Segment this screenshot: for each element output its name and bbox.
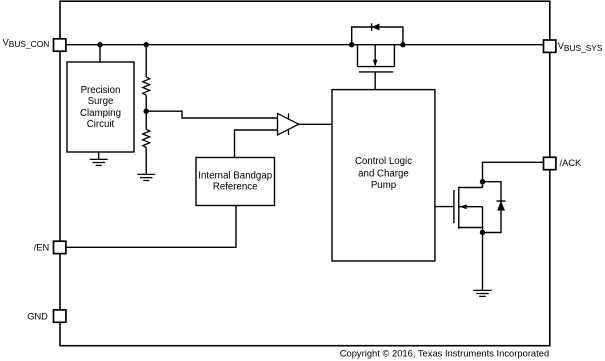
diode D2 xyxy=(497,201,506,211)
svg-text:Control Logic: Control Logic xyxy=(355,156,412,167)
ground below Q2 xyxy=(473,290,492,296)
svg-text:Clamping: Clamping xyxy=(80,108,121,119)
svg-text:GND: GND xyxy=(27,311,48,321)
diode D1 xyxy=(372,23,380,31)
transistor Q2 xyxy=(454,187,483,233)
wire: bus down to resistor R1 xyxy=(145,45,147,77)
svg-text:VBUS_SYS: VBUS_SYS xyxy=(558,41,603,53)
svg-text:Circuit: Circuit xyxy=(87,119,115,130)
junction node at FET source xyxy=(349,42,354,47)
svg-text:Copyright © 2016, Texas Instru: Copyright © 2016, Texas Instruments Inco… xyxy=(340,347,549,358)
pin /EN xyxy=(54,241,66,253)
svg-text:/ACK: /ACK xyxy=(560,158,582,168)
wire: /ACK pin to Q2 drain xyxy=(483,162,544,187)
svg-text:Surge: Surge xyxy=(88,96,114,107)
junction node at Q2 source xyxy=(480,230,485,235)
wire: bandgap reference to comparator input xyxy=(235,130,278,158)
wire: control logic to Q2 gate xyxy=(435,206,454,208)
svg-text:VBUS_CON: VBUS_CON xyxy=(3,37,50,49)
svg-text:Pump: Pump xyxy=(371,180,396,191)
svg-text:and Charge: and Charge xyxy=(358,168,409,179)
svg-text:Reference: Reference xyxy=(213,182,258,193)
pin VBUS_CON xyxy=(54,39,66,51)
wire: VBUS_CON to VBUS_SYS main bus xyxy=(66,44,544,46)
comparator U1 xyxy=(278,113,299,135)
wire: comparator output to control logic xyxy=(299,123,332,125)
ground below resistor divider xyxy=(137,174,155,180)
svg-text:Precision: Precision xyxy=(81,85,121,96)
ground below precision surge clamping circuit xyxy=(90,152,108,165)
wire: Q2 source to ground xyxy=(482,233,484,291)
pin GND xyxy=(54,310,66,322)
block: Control Logic and Charge Pump xyxy=(332,90,435,261)
junction node at FET drain xyxy=(400,42,405,47)
junction node at precision clamp tap xyxy=(97,42,102,47)
junction node at divider midpoint xyxy=(144,109,149,114)
wire: /EN pin to bandgap reference xyxy=(66,206,236,248)
block: Internal Bandgap Reference xyxy=(196,158,275,206)
diode D2 branch xyxy=(483,182,502,233)
pin /ACK xyxy=(544,157,556,169)
block: Precision Surge Clamping Circuit xyxy=(67,62,134,152)
wire: Q1 gate to control logic xyxy=(374,72,376,90)
junction node at Q2 drain xyxy=(480,179,485,184)
wire: divider node to comparator input xyxy=(146,111,277,118)
svg-text:/EN: /EN xyxy=(34,243,50,253)
outer device boundary xyxy=(60,1,550,346)
svg-text:Internal Bandgap: Internal Bandgap xyxy=(198,170,272,181)
resistor R1 (upper divider) xyxy=(143,77,150,95)
resistor R2 (lower divider) xyxy=(143,129,150,147)
junction node at resistor divider tap xyxy=(144,42,149,47)
wire: R1 to divider node xyxy=(145,95,147,129)
pin VBUS_SYS xyxy=(544,40,556,52)
body diode D1 branch over pass FET xyxy=(352,27,403,45)
wire: bus to precision surge clamping circuit xyxy=(99,45,101,62)
pass transistor Q1 xyxy=(358,45,395,72)
wire: R2 to ground xyxy=(145,148,147,175)
